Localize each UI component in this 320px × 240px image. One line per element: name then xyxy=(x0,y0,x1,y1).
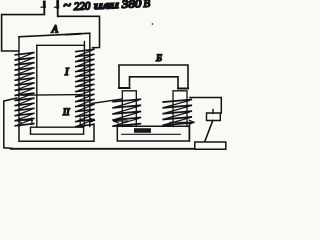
wire winding II left to bottom bus xyxy=(4,98,17,148)
reactor winding on left leg xyxy=(113,99,140,101)
tap link wire under core A xyxy=(19,124,94,141)
reactor winding on right leg xyxy=(163,100,191,102)
svg-text:А: А xyxy=(51,24,59,35)
wire from terminal 2 to primary winding right xyxy=(58,16,100,47)
tap arrow left on reactor xyxy=(114,120,128,122)
air gap hatch on movable yoke xyxy=(134,128,151,133)
core B top yoke (P-shape) xyxy=(119,65,188,89)
wire across window between winding halves xyxy=(22,94,82,97)
core B movable bottom yoke xyxy=(117,126,189,141)
speck xyxy=(152,23,154,25)
tap arrow right on reactor xyxy=(170,121,194,123)
svg-text:~: ~ xyxy=(63,0,72,14)
core A bottom yoke xyxy=(31,127,84,134)
core B right leg xyxy=(173,91,187,127)
core A right leg outer edge xyxy=(89,33,91,126)
core A right leg inner edge xyxy=(83,42,85,127)
svg-text:I: I xyxy=(64,67,69,78)
electrode xyxy=(205,121,213,142)
core A left leg inner edge xyxy=(36,45,38,127)
core A inner window top xyxy=(37,44,85,46)
svg-text:В: В xyxy=(143,0,151,10)
wire reactor to electrode holder xyxy=(190,98,221,114)
svg-text:220: 220 xyxy=(74,0,92,13)
workpiece xyxy=(195,142,226,149)
core A top line retrace xyxy=(66,33,80,36)
svg-text:или: или xyxy=(94,0,120,12)
wire from terminal 1 to primary winding left xyxy=(2,15,45,51)
core B left leg xyxy=(122,91,136,127)
winding I on right leg xyxy=(76,49,94,51)
wire reactor tap down to yoke side xyxy=(189,123,191,141)
winding I on left leg xyxy=(15,53,34,55)
supply label ~220 or 380 V xyxy=(63,0,151,14)
wire winding II right to reactor B xyxy=(92,99,123,104)
bottom bus wire to workpiece xyxy=(11,148,195,150)
svg-text:II: II xyxy=(62,107,70,117)
electrode holder xyxy=(207,113,221,121)
svg-text:380: 380 xyxy=(120,0,142,11)
terminal 1 xyxy=(43,2,45,15)
core A outer top xyxy=(19,33,90,37)
svg-text:Б: Б xyxy=(155,54,162,64)
terminal 2 xyxy=(57,1,59,16)
core A left leg outer edge xyxy=(18,37,20,127)
tap arrow right on winding II xyxy=(80,119,95,121)
tap arrow left on winding II xyxy=(16,119,32,121)
